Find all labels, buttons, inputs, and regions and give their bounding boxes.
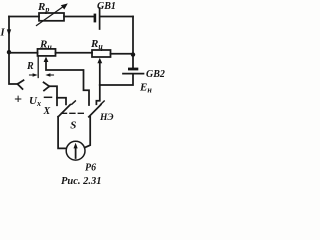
tap line left end of Ri	[37, 56, 39, 78]
battery GB1 short thick plate	[94, 14, 97, 23]
battery GB2 short thick plate (top)	[128, 68, 138, 71]
galvanometer needle arrow	[75, 147, 77, 158]
svg-text:GB2: GB2	[146, 69, 165, 80]
svg-text:Eн: Eн	[139, 82, 152, 95]
svg-text:Rц: Rц	[90, 38, 103, 51]
resistor Rp	[39, 13, 64, 21]
wire top from left corner to Rp	[9, 16, 39, 18]
galvanometer PG circle	[66, 141, 85, 160]
wire top from Rp to GB1	[64, 16, 94, 18]
svg-text:S: S	[70, 120, 76, 132]
dimension arrow R left segment	[30, 74, 35, 76]
battery GB2 long thin plate (bottom)	[123, 73, 144, 75]
svg-text:X: X	[43, 106, 51, 117]
switch pole 1 right contact stub	[57, 98, 66, 105]
node junction right rail	[131, 52, 135, 56]
svg-text:GB1: GB1	[97, 1, 116, 12]
wire between Ri and Ru	[56, 52, 93, 54]
svg-text:+: +	[14, 93, 22, 108]
battery GB1 long thin plate	[99, 8, 101, 29]
resistor Ri	[38, 49, 56, 56]
wire Ru wiper down to switch contact НЭ	[96, 85, 99, 104]
wire row2 left	[9, 52, 38, 54]
svg-text:R: R	[26, 61, 34, 72]
svg-text:Rp: Rp	[37, 1, 49, 14]
svg-text:Р6: Р6	[85, 163, 96, 174]
dimension arrow R right segment	[49, 74, 54, 76]
arrow of Rp (adjustment)	[37, 5, 66, 26]
wire Ru to right rail	[111, 53, 134, 55]
fixed contact tick pole 2	[101, 101, 104, 104]
resistor Ru	[92, 50, 111, 57]
svg-text:Рис. 2.31: Рис. 2.31	[61, 176, 102, 187]
terminal minus (clamp)	[44, 82, 50, 90]
wire galvanometer left	[58, 117, 66, 149]
minus sign	[45, 96, 52, 98]
svg-text:Ux: Ux	[29, 95, 41, 108]
svg-text:Rи: Rи	[39, 39, 52, 52]
wire GB2 down and left	[100, 74, 133, 85]
wire top from GB1 to right corner	[100, 16, 133, 18]
dashed gang linkage of switch S	[62, 112, 87, 114]
wiper of Ri	[46, 61, 89, 105]
wire from minus terminal to switch contact X	[49, 86, 57, 105]
wiper of Ru	[99, 62, 101, 85]
fixed contact tick pole 1	[72, 101, 76, 104]
switch lever pole 2	[89, 105, 101, 117]
wire galvanometer right	[85, 117, 91, 148]
svg-text:НЭ: НЭ	[99, 113, 114, 123]
svg-text:I: I	[0, 28, 6, 39]
current I arrow on left rail	[7, 29, 11, 35]
wire left rail	[9, 17, 18, 85]
switch lever pole 1	[58, 105, 70, 117]
node junction left rail	[7, 50, 11, 54]
wire right rail upper	[132, 17, 134, 68]
terminal + (clamp)	[18, 80, 24, 89]
